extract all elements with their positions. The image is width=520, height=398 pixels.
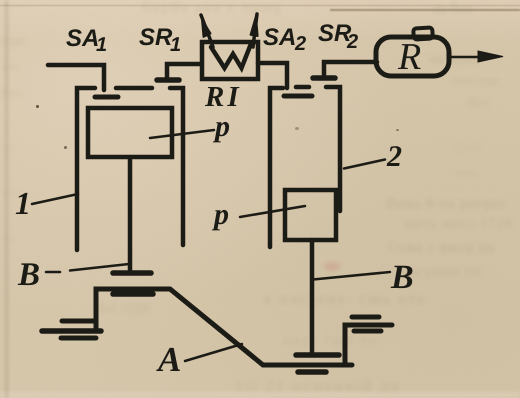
svg-text:R: R	[397, 36, 421, 78]
svg-text:SA: SA	[263, 24, 296, 51]
svg-text:SA: SA	[66, 25, 99, 52]
svg-text:1: 1	[96, 34, 107, 56]
svg-text:SR: SR	[139, 24, 173, 51]
svg-text:p: p	[211, 198, 229, 231]
svg-text:B: B	[17, 257, 40, 293]
svg-text:A: A	[156, 340, 181, 379]
svg-text:2: 2	[294, 33, 306, 55]
svg-text:2: 2	[386, 140, 402, 173]
svg-text:B: B	[390, 259, 414, 296]
svg-text:p: p	[212, 110, 230, 143]
svg-text:RI: RI	[204, 81, 242, 113]
svg-text:1: 1	[170, 34, 181, 56]
svg-text:2: 2	[346, 31, 358, 53]
svg-text:1: 1	[15, 185, 31, 221]
